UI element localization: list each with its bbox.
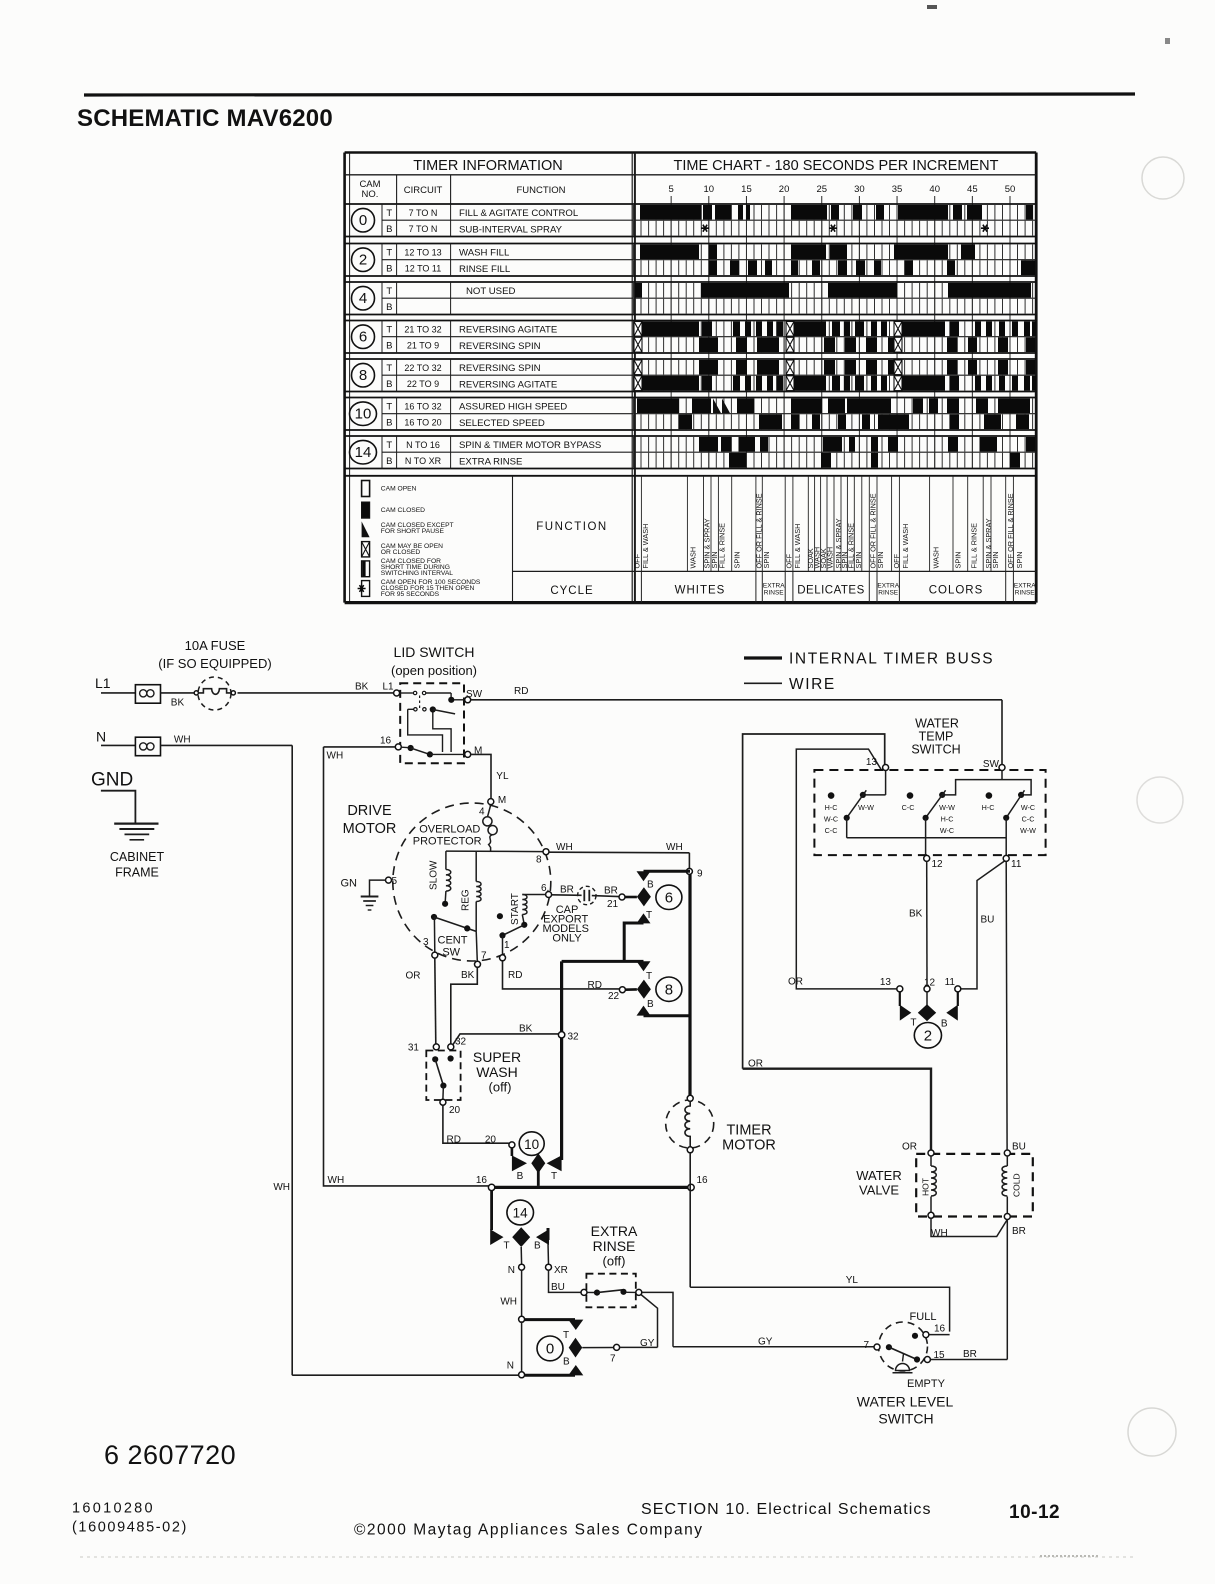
wire OR (13 to cam2 T node) bbox=[796, 749, 897, 989]
svg-text:16: 16 bbox=[697, 1175, 709, 1186]
svg-text:REVERSING AGITATE: REVERSING AGITATE bbox=[459, 325, 557, 336]
svg-text:INTERNAL TIMER BUSS: INTERNAL TIMER BUSS bbox=[789, 651, 994, 668]
svg-text:16: 16 bbox=[476, 1175, 488, 1186]
svg-text:CAM CLOSED: CAM CLOSED bbox=[381, 507, 425, 514]
wts switch 1 bbox=[885, 771, 887, 795]
svg-text:C-C: C-C bbox=[902, 803, 915, 812]
svg-text:5: 5 bbox=[669, 184, 674, 195]
svg-text:WH: WH bbox=[556, 842, 573, 853]
svg-text:WASH: WASH bbox=[688, 547, 697, 569]
svg-text:OFF: OFF bbox=[633, 553, 642, 568]
svg-text:20: 20 bbox=[485, 1135, 497, 1146]
svg-text:REVERSING SPIN: REVERSING SPIN bbox=[459, 363, 541, 374]
svg-text:T: T bbox=[386, 247, 392, 258]
svg-text:T: T bbox=[386, 440, 392, 451]
svg-text:13: 13 bbox=[880, 977, 892, 988]
wire timer motor to YL bbox=[689, 1153, 691, 1287]
svg-text:FILL & RINSE: FILL & RINSE bbox=[718, 523, 727, 569]
svg-text:SUPER: SUPER bbox=[473, 1049, 521, 1065]
motor terminal M (4) bbox=[488, 799, 494, 805]
svg-text:SW: SW bbox=[983, 759, 1000, 770]
svg-text:TIMER: TIMER bbox=[726, 1123, 771, 1139]
wire OR (13 riser to water valve) bbox=[743, 734, 885, 1069]
svg-text:H-C: H-C bbox=[825, 803, 838, 812]
svg-text:XR: XR bbox=[554, 1265, 568, 1276]
wire WH long left vertical (N to cam0 B) bbox=[291, 745, 293, 1375]
wire WH (8 to 9) bbox=[549, 851, 689, 854]
svg-text:COLD: COLD bbox=[1012, 1173, 1022, 1197]
svg-text:SW: SW bbox=[466, 689, 483, 700]
svg-text:YL: YL bbox=[496, 771, 509, 782]
overload protector bbox=[488, 805, 491, 817]
svg-text:FOR 95 SECONDS: FOR 95 SECONDS bbox=[381, 591, 440, 598]
svg-text:21 TO 9: 21 TO 9 bbox=[407, 341, 439, 351]
svg-text:B: B bbox=[386, 379, 392, 390]
wire extra rinse to GY long bbox=[642, 1292, 673, 1346]
svg-text:NOT USED: NOT USED bbox=[466, 286, 515, 297]
centrifugal switch CENT SW bbox=[431, 914, 437, 920]
svg-text:(off): (off) bbox=[489, 1080, 512, 1095]
svg-text:FILL & RINSE: FILL & RINSE bbox=[969, 523, 978, 569]
svg-text:REVERSING SPIN: REVERSING SPIN bbox=[459, 341, 541, 352]
svg-text:11: 11 bbox=[945, 977, 956, 988]
svg-text:8: 8 bbox=[359, 367, 367, 384]
svg-text:5: 5 bbox=[392, 876, 398, 887]
svg-text:B: B bbox=[386, 302, 392, 313]
svg-text:FULL: FULL bbox=[910, 1311, 937, 1323]
svg-text:B: B bbox=[563, 1357, 570, 1368]
svg-text:SWITCH: SWITCH bbox=[878, 1411, 933, 1427]
svg-text:SWITCHING INTERVAL: SWITCHING INTERVAL bbox=[381, 570, 453, 577]
svg-text:RINSE: RINSE bbox=[878, 590, 899, 597]
svg-text:4: 4 bbox=[359, 290, 367, 307]
svg-text:BR: BR bbox=[1012, 1226, 1026, 1237]
svg-text:FUNCTION: FUNCTION bbox=[516, 185, 565, 196]
svg-text:CENT: CENT bbox=[438, 935, 468, 947]
svg-text:SPIN: SPIN bbox=[854, 551, 863, 568]
svg-text:FILL & WASH: FILL & WASH bbox=[793, 524, 802, 569]
wire extra rinse to cam0 7 (GY) bbox=[641, 1295, 658, 1348]
wts bracket SW feed bbox=[942, 780, 1031, 795]
svg-text:WH: WH bbox=[500, 1296, 517, 1307]
svg-text:T: T bbox=[386, 286, 392, 297]
svg-text:WASH: WASH bbox=[476, 1064, 517, 1080]
svg-text:OR: OR bbox=[788, 976, 803, 987]
svg-text:B: B bbox=[647, 999, 654, 1010]
svg-text:OFF OR FILL & RINSE: OFF OR FILL & RINSE bbox=[1006, 493, 1015, 568]
svg-text:NO.: NO. bbox=[362, 189, 379, 200]
svg-text:12 TO 13: 12 TO 13 bbox=[404, 247, 441, 257]
svg-text:W-C: W-C bbox=[940, 826, 954, 835]
svg-text:REVERSING AGITATE: REVERSING AGITATE bbox=[459, 379, 557, 390]
svg-text:2: 2 bbox=[924, 1028, 932, 1045]
wire 0 to 7 GY bbox=[582, 1347, 613, 1349]
water level switch bbox=[879, 1322, 928, 1371]
svg-text:20: 20 bbox=[449, 1105, 461, 1116]
svg-text:7: 7 bbox=[863, 1340, 869, 1351]
svg-text:(16009485-02): (16009485-02) bbox=[72, 1520, 188, 1536]
svg-text:H-C: H-C bbox=[941, 815, 954, 824]
svg-text:CIRCUIT: CIRCUIT bbox=[404, 185, 443, 196]
svg-text:FILL & WASH: FILL & WASH bbox=[641, 524, 650, 569]
wts switch 2 bbox=[907, 792, 914, 799]
svg-text:FOR SHORT PAUSE: FOR SHORT PAUSE bbox=[381, 528, 445, 535]
svg-text:DELICATES: DELICATES bbox=[797, 585, 865, 597]
svg-text:CAM OPEN: CAM OPEN bbox=[381, 485, 417, 492]
svg-text:B: B bbox=[386, 224, 392, 235]
svg-text:START: START bbox=[510, 893, 521, 925]
wire RD (motor 1 to cam8) bbox=[503, 961, 620, 989]
svg-text:10: 10 bbox=[524, 1137, 539, 1152]
svg-text:L1: L1 bbox=[95, 675, 111, 691]
svg-text:3: 3 bbox=[423, 937, 429, 948]
svg-text:0: 0 bbox=[359, 212, 367, 229]
wire YL bbox=[690, 1287, 949, 1331]
svg-text:15: 15 bbox=[741, 184, 752, 195]
svg-text:T: T bbox=[504, 1241, 510, 1252]
svg-text:T: T bbox=[386, 363, 392, 374]
motor terminal 7 bbox=[475, 961, 481, 967]
svg-text:16: 16 bbox=[380, 736, 392, 747]
svg-text:RINSE: RINSE bbox=[593, 1238, 636, 1254]
svg-text:WH: WH bbox=[666, 842, 683, 853]
svg-text:T: T bbox=[386, 324, 392, 335]
svg-text:20: 20 bbox=[779, 184, 790, 195]
svg-text:BK: BK bbox=[519, 1024, 533, 1035]
svg-text:TEMP: TEMP bbox=[919, 729, 954, 743]
svg-text:15: 15 bbox=[934, 1350, 946, 1361]
svg-text:B: B bbox=[386, 264, 392, 275]
svg-text:13: 13 bbox=[866, 757, 878, 768]
svg-text:B: B bbox=[647, 880, 654, 891]
svg-text:B: B bbox=[517, 1171, 524, 1182]
svg-text:22: 22 bbox=[608, 991, 620, 1002]
svg-text:BK: BK bbox=[461, 970, 475, 981]
buss legend bbox=[744, 656, 782, 659]
motor internal node 8 wire bbox=[446, 850, 543, 853]
wire BK (motor 7 to super wash 32) bbox=[451, 967, 478, 1044]
svg-text:W-W: W-W bbox=[1020, 826, 1036, 835]
svg-text:FUNCTION: FUNCTION bbox=[536, 521, 607, 533]
wire 16 (lid switch to WH riser) bbox=[324, 746, 396, 748]
wire GY long to water level switch bbox=[673, 1346, 874, 1348]
svg-text:TIMER INFORMATION: TIMER INFORMATION bbox=[413, 158, 563, 174]
svg-text:45: 45 bbox=[967, 184, 978, 195]
svg-text:N TO 16: N TO 16 bbox=[406, 440, 440, 450]
svg-text:W-C: W-C bbox=[1021, 803, 1035, 812]
svg-text:7: 7 bbox=[610, 1354, 616, 1365]
svg-text:T: T bbox=[551, 1171, 557, 1182]
wire WH riser (16) bbox=[324, 747, 490, 1186]
svg-text:SECTION 10. Electrical Schem: SECTION 10. Electrical Schematics bbox=[641, 1501, 932, 1518]
svg-text:M: M bbox=[498, 795, 506, 806]
svg-text:BR: BR bbox=[604, 886, 618, 897]
buss vertical (cam6/8 T to 32 node to cam10) bbox=[560, 961, 563, 1160]
svg-text:16010280: 16010280 bbox=[72, 1501, 155, 1517]
svg-text:RD: RD bbox=[447, 1135, 461, 1146]
svg-text:EXTRA: EXTRA bbox=[763, 583, 785, 590]
wire BK 32 to node 32 bbox=[453, 1034, 559, 1045]
svg-text:OFF: OFF bbox=[892, 553, 901, 568]
svg-text:FILL & WASH: FILL & WASH bbox=[901, 524, 910, 569]
svg-text:MOTOR: MOTOR bbox=[343, 821, 397, 837]
svg-text:WH: WH bbox=[328, 1175, 345, 1186]
svg-text:10: 10 bbox=[704, 184, 715, 195]
svg-text:14: 14 bbox=[355, 444, 372, 461]
svg-text:SWITCH: SWITCH bbox=[911, 743, 960, 757]
svg-text:PROTECTOR: PROTECTOR bbox=[413, 836, 482, 848]
svg-text:LID SWITCH: LID SWITCH bbox=[394, 644, 475, 660]
svg-text:EMPTY: EMPTY bbox=[907, 1378, 946, 1390]
svg-text:WATER: WATER bbox=[856, 1168, 902, 1183]
cam switch 14 bbox=[490, 1191, 493, 1230]
svg-text:21 TO 32: 21 TO 32 bbox=[404, 324, 441, 334]
wire N (cam14 to cam0) bbox=[520, 1247, 522, 1264]
svg-text:WHITES: WHITES bbox=[675, 585, 726, 597]
svg-text:22 TO 9: 22 TO 9 bbox=[407, 379, 439, 389]
pressure bell bbox=[903, 1354, 904, 1362]
svg-text:RINSE FILL: RINSE FILL bbox=[459, 264, 511, 275]
svg-text:VALVE: VALVE bbox=[859, 1183, 899, 1198]
svg-text:SPIN: SPIN bbox=[991, 551, 1000, 568]
svg-text:16 TO 20: 16 TO 20 bbox=[404, 418, 441, 428]
svg-text:OVERLOAD: OVERLOAD bbox=[419, 824, 480, 836]
svg-text:BK: BK bbox=[909, 909, 923, 920]
wire OR (motor 3 to super wash 31) bbox=[435, 958, 436, 1044]
svg-text:N: N bbox=[508, 1265, 515, 1276]
cam switch 8 bbox=[562, 960, 644, 963]
svg-text:32: 32 bbox=[568, 1032, 580, 1043]
svg-text:BR: BR bbox=[560, 885, 574, 896]
svg-text:DRIVE: DRIVE bbox=[347, 803, 392, 819]
svg-text:OR CLOSED: OR CLOSED bbox=[381, 549, 421, 556]
svg-text:EXTRA: EXTRA bbox=[877, 583, 899, 590]
svg-text:N: N bbox=[507, 1361, 514, 1372]
svg-text:1: 1 bbox=[504, 940, 510, 951]
wire BK (12 down) bbox=[926, 861, 928, 986]
svg-text:31: 31 bbox=[408, 1043, 420, 1054]
svg-text:WH: WH bbox=[273, 1182, 290, 1193]
svg-text:H-C: H-C bbox=[982, 803, 995, 812]
svg-text:12: 12 bbox=[932, 859, 944, 870]
wire BU (11 down) bbox=[961, 861, 1005, 989]
svg-text:YL: YL bbox=[846, 1275, 859, 1286]
svg-text:GY: GY bbox=[758, 1337, 773, 1348]
svg-text:22 TO 32: 22 TO 32 bbox=[404, 363, 441, 373]
wire M to motor, YL bbox=[471, 754, 491, 798]
svg-text:TIME CHART - 180 SECONDS PER I: TIME CHART - 180 SECONDS PER INCREMENT bbox=[674, 158, 999, 174]
svg-text:BR: BR bbox=[963, 1349, 977, 1360]
svg-text:RD: RD bbox=[514, 686, 528, 697]
svg-text:C-C: C-C bbox=[1022, 815, 1035, 824]
svg-text:21: 21 bbox=[607, 899, 619, 910]
svg-text:(IF SO EQUIPPED): (IF SO EQUIPPED) bbox=[158, 656, 271, 671]
svg-text:0: 0 bbox=[546, 1341, 554, 1358]
svg-text:WH: WH bbox=[931, 1228, 948, 1239]
svg-text:OR: OR bbox=[406, 970, 421, 981]
wts terminal 12 bbox=[924, 855, 930, 861]
svg-text:WIRE: WIRE bbox=[789, 676, 836, 693]
svg-text:2: 2 bbox=[359, 252, 367, 269]
svg-text:35: 35 bbox=[892, 184, 903, 195]
svg-text:SPIN & TIMER MOTOR BYPASS: SPIN & TIMER MOTOR BYPASS bbox=[459, 440, 601, 451]
svg-text:RINSE: RINSE bbox=[1015, 590, 1036, 597]
svg-text:40: 40 bbox=[929, 184, 940, 195]
cam switch 0 bbox=[519, 1316, 525, 1322]
internal timer buss vertical (9 to timer motor) bbox=[688, 874, 691, 1095]
svg-text:6: 6 bbox=[665, 890, 673, 907]
svg-text:6 2607720: 6 2607720 bbox=[104, 1440, 236, 1470]
svg-text:SPIN: SPIN bbox=[876, 551, 885, 568]
svg-text:(open position): (open position) bbox=[391, 663, 477, 678]
svg-text:WASH FILL: WASH FILL bbox=[459, 248, 510, 259]
svg-text:BK: BK bbox=[171, 698, 185, 709]
svg-text:OR: OR bbox=[748, 1059, 763, 1070]
svg-text:B: B bbox=[941, 1019, 948, 1030]
wire WH (valve bottom) bbox=[931, 1218, 1007, 1236]
svg-text:SPIN: SPIN bbox=[1015, 551, 1024, 568]
svg-text:OR: OR bbox=[902, 1141, 917, 1152]
svg-text:SPIN: SPIN bbox=[954, 551, 963, 568]
svg-text:ASSURED HIGH SPEED: ASSURED HIGH SPEED bbox=[459, 402, 567, 413]
wts switch 3 bbox=[986, 792, 993, 799]
svg-text:T: T bbox=[386, 401, 392, 412]
svg-text:COLORS: COLORS bbox=[929, 585, 984, 597]
svg-text:WH: WH bbox=[174, 734, 191, 745]
svg-text:B: B bbox=[534, 1240, 541, 1251]
svg-text:©2000 Maytag Appliances Sales: ©2000 Maytag Appliances Sales Company bbox=[354, 1522, 704, 1539]
svg-text:BU: BU bbox=[1012, 1141, 1026, 1152]
wire RD (20 to cam10) bbox=[443, 1105, 509, 1143]
wts common bus bbox=[847, 837, 1007, 839]
svg-text:N: N bbox=[96, 729, 106, 745]
svg-text:10: 10 bbox=[355, 406, 372, 423]
svg-text:FRAME: FRAME bbox=[115, 866, 159, 880]
wts terminal 11 bbox=[1003, 855, 1009, 861]
svg-text:B: B bbox=[386, 418, 392, 429]
svg-text:WH: WH bbox=[327, 751, 344, 762]
svg-text:RD: RD bbox=[508, 970, 522, 981]
node 9 bbox=[688, 853, 690, 869]
svg-text:7 TO N: 7 TO N bbox=[409, 224, 438, 234]
svg-text:SPIN: SPIN bbox=[733, 551, 742, 568]
cam switch 10 bbox=[509, 1142, 515, 1148]
svg-text:12 TO 11: 12 TO 11 bbox=[405, 264, 442, 274]
svg-text:30: 30 bbox=[854, 184, 865, 195]
svg-text:EXTRA: EXTRA bbox=[591, 1223, 638, 1239]
svg-text:SLOW: SLOW bbox=[429, 860, 440, 890]
svg-text:ONLY: ONLY bbox=[552, 933, 582, 945]
svg-text:BU: BU bbox=[981, 915, 995, 926]
svg-text:T: T bbox=[563, 1330, 569, 1341]
svg-text:11: 11 bbox=[1011, 859, 1022, 870]
svg-text:RINSE: RINSE bbox=[764, 590, 785, 597]
svg-text:FILL & AGITATE CONTROL: FILL & AGITATE CONTROL bbox=[459, 208, 579, 219]
svg-text:C-C: C-C bbox=[825, 826, 838, 835]
svg-text:6,: 6, bbox=[541, 883, 549, 894]
wire XR to extra rinse bbox=[547, 1243, 550, 1264]
svg-text:4: 4 bbox=[479, 806, 485, 817]
svg-text:SELECTED SPEED: SELECTED SPEED bbox=[459, 418, 545, 429]
svg-text:14: 14 bbox=[513, 1206, 529, 1221]
svg-text:(off): (off) bbox=[603, 1254, 626, 1269]
svg-text:BU: BU bbox=[551, 1282, 565, 1293]
svg-text:W-W: W-W bbox=[939, 803, 955, 812]
svg-text:SW: SW bbox=[442, 947, 460, 959]
svg-text:BK: BK bbox=[355, 682, 369, 693]
svg-text:10A FUSE: 10A FUSE bbox=[185, 638, 246, 653]
wire RD (lid SW to water temp SW) bbox=[471, 699, 1002, 701]
svg-text:EXTRA: EXTRA bbox=[1014, 583, 1036, 590]
svg-text:EXTRA RINSE: EXTRA RINSE bbox=[459, 456, 522, 467]
svg-text:T: T bbox=[910, 1018, 916, 1029]
wire BU (water temp 11 branch down to valve) bbox=[1005, 861, 1008, 1150]
svg-text:CYCLE: CYCLE bbox=[550, 585, 593, 597]
svg-text:WATER LEVEL: WATER LEVEL bbox=[857, 1394, 954, 1410]
svg-text:50: 50 bbox=[1005, 184, 1016, 195]
svg-text:B: B bbox=[386, 341, 392, 352]
svg-text:6: 6 bbox=[359, 329, 367, 346]
svg-text:T: T bbox=[646, 971, 652, 982]
svg-text:L1: L1 bbox=[383, 682, 395, 693]
svg-text:16 TO 32: 16 TO 32 bbox=[404, 401, 441, 411]
svg-text:8: 8 bbox=[665, 981, 673, 998]
svg-text:W-W: W-W bbox=[858, 803, 874, 812]
svg-text:GND: GND bbox=[91, 770, 133, 791]
wire fuse-lidswitch BK bbox=[238, 692, 394, 694]
svg-text:GN: GN bbox=[341, 878, 358, 890]
svg-text:25: 25 bbox=[816, 184, 827, 195]
svg-text:9: 9 bbox=[697, 869, 703, 880]
lid switch row2 bbox=[408, 709, 443, 752]
svg-text:MOTOR: MOTOR bbox=[722, 1138, 776, 1154]
svg-text:10-12: 10-12 bbox=[1009, 1502, 1060, 1523]
svg-text:7 TO N: 7 TO N bbox=[409, 208, 438, 218]
svg-text:N TO XR: N TO XR bbox=[405, 456, 442, 466]
wire BR (valve to water level 15) bbox=[1006, 1220, 1008, 1360]
svg-text:REG: REG bbox=[460, 889, 471, 911]
svg-text:SUB-INTERVAL SPRAY: SUB-INTERVAL SPRAY bbox=[459, 224, 563, 235]
svg-text:T: T bbox=[386, 208, 392, 219]
svg-text:WASH: WASH bbox=[931, 547, 940, 569]
svg-text:B: B bbox=[386, 456, 392, 467]
svg-text:SPIN: SPIN bbox=[762, 551, 771, 568]
svg-text:SCHEMATIC MAV6200: SCHEMATIC MAV6200 bbox=[77, 105, 333, 132]
svg-text:CABINET: CABINET bbox=[110, 850, 165, 864]
svg-text:HOT: HOT bbox=[921, 1178, 931, 1196]
svg-text:7: 7 bbox=[481, 951, 487, 962]
svg-text:16: 16 bbox=[934, 1324, 946, 1335]
cam switch 6 bbox=[637, 871, 651, 881]
svg-text:W-C: W-C bbox=[824, 815, 838, 824]
svg-text:8: 8 bbox=[536, 855, 542, 866]
